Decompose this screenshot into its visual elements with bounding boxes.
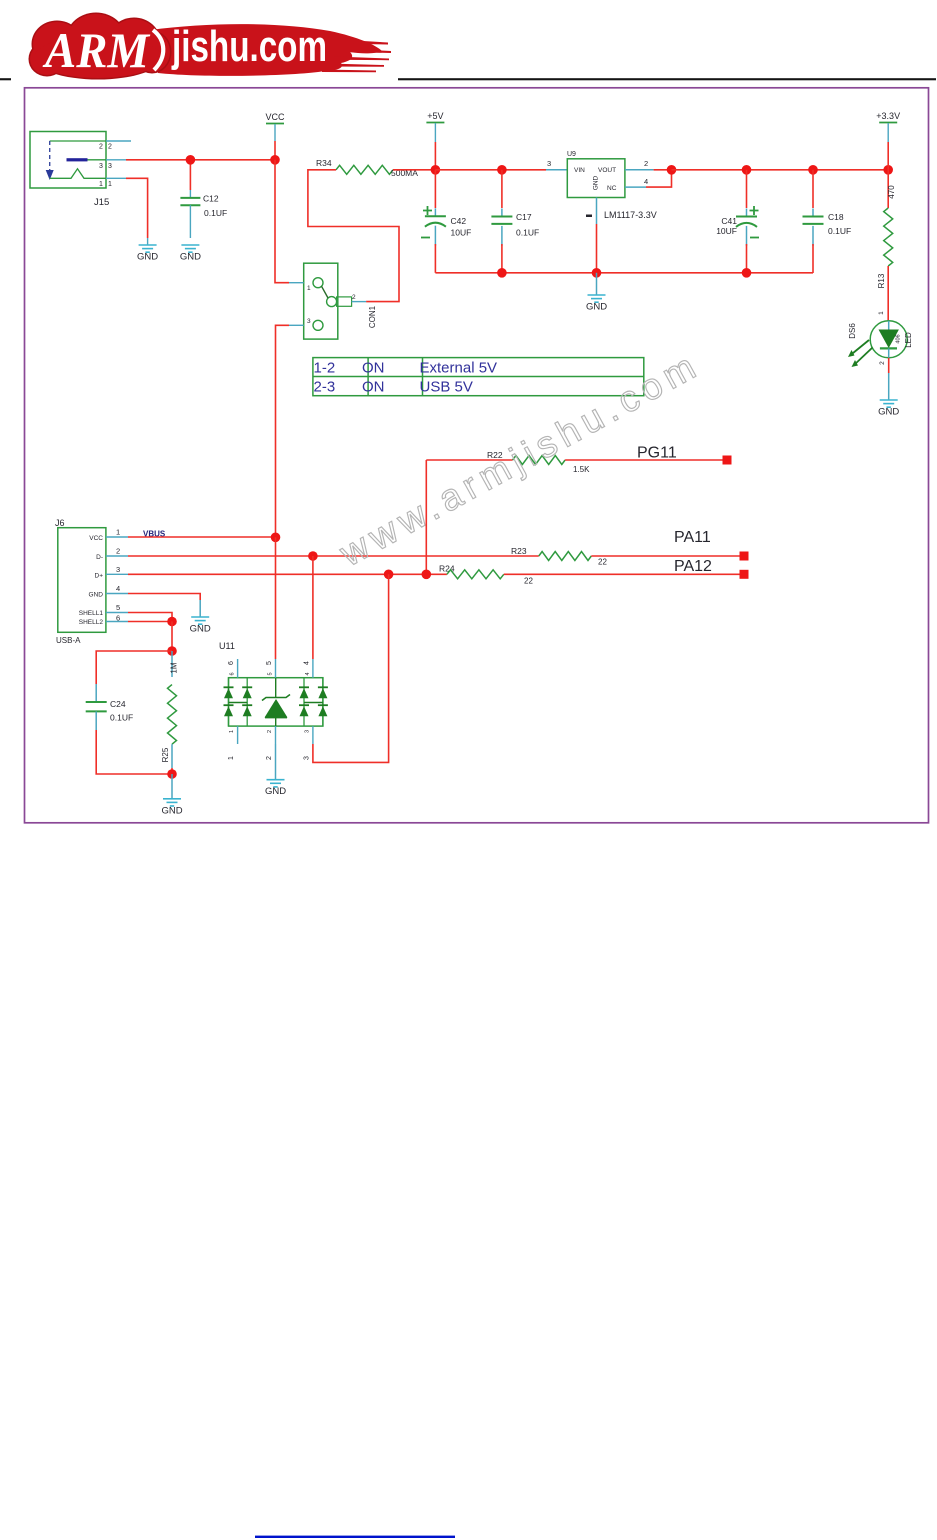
- junction C41: [742, 165, 752, 175]
- wire LED to ground: [888, 358, 890, 373]
- U11 pin2 to ground: [275, 744, 277, 780]
- svg-text:1.5K: 1.5K: [573, 465, 590, 474]
- capacitor C18 0.1UF: [803, 170, 852, 273]
- wire D- line: [128, 555, 539, 557]
- svg-text:VCC: VCC: [265, 112, 285, 122]
- svg-text:J15: J15: [94, 197, 109, 208]
- svg-text:GND: GND: [593, 175, 600, 190]
- svg-text:0.1UF: 0.1UF: [516, 228, 539, 238]
- svg-text:6: 6: [230, 672, 236, 675]
- wire R22 to PG11: [565, 459, 724, 461]
- svg-text:GND: GND: [265, 786, 286, 797]
- wire VBUS down to U11 pin5: [275, 537, 277, 659]
- capacitor C12: [180, 160, 227, 238]
- svg-text:470: 470: [887, 185, 896, 199]
- svg-text:VCC: VCC: [89, 535, 103, 542]
- capacitor C42 10UF: [421, 170, 471, 273]
- svg-text:5: 5: [266, 661, 273, 665]
- junction rail U9: [592, 268, 602, 278]
- wire VCC down to switch pin1: [275, 160, 289, 283]
- wire J15 pin1 down to ground: [126, 178, 148, 238]
- U9 gnd wire down: [596, 224, 598, 273]
- svg-text:22: 22: [598, 558, 607, 567]
- svg-text:C17: C17: [516, 212, 532, 222]
- IC U11 diode array: [224, 678, 328, 726]
- svg-text:GND: GND: [586, 302, 607, 313]
- terminal PA12: [740, 570, 749, 579]
- svg-text:USB-A: USB-A: [56, 636, 81, 645]
- schematic sheet border: [25, 88, 929, 823]
- resistor R25 1M: [161, 651, 179, 774]
- svg-text:D-: D-: [96, 554, 103, 561]
- svg-text:2: 2: [108, 143, 112, 150]
- svg-text:1: 1: [307, 285, 311, 292]
- wire D+ branch up to R22: [425, 460, 427, 574]
- junction C17 top: [497, 165, 507, 175]
- svg-text:1: 1: [116, 528, 120, 537]
- svg-text:0.1UF: 0.1UF: [110, 713, 133, 723]
- svg-text:1: 1: [99, 181, 103, 188]
- wire shell2: [128, 621, 172, 623]
- J15 pin 3 stub: [106, 159, 126, 161]
- svg-text:LED: LED: [904, 332, 913, 348]
- wire R34 right to +5V junction: [393, 169, 435, 171]
- U9 pin 3 stub: [546, 169, 567, 171]
- junction shell: [167, 617, 177, 627]
- svg-text:C41: C41: [721, 216, 737, 226]
- connector J6 USB-A: [55, 518, 106, 645]
- svg-text:PA12: PA12: [674, 558, 712, 575]
- svg-text:C12: C12: [203, 194, 219, 204]
- svg-text:GND: GND: [878, 407, 899, 418]
- junction C12/VCC: [186, 155, 196, 165]
- logo ARMjishu.com: [29, 13, 392, 80]
- capacitor C41 10UF: [716, 170, 759, 273]
- svg-text:GND: GND: [190, 624, 211, 635]
- svg-text:GND: GND: [137, 252, 158, 263]
- svg-text:1: 1: [878, 311, 885, 315]
- J15 pin 1 stub: [106, 177, 126, 179]
- wire shell down: [171, 622, 173, 652]
- capacitor C17 0.1UF: [491, 170, 539, 273]
- junction D+ branch R22: [422, 570, 432, 580]
- svg-text:GND: GND: [89, 591, 104, 598]
- svg-text:2: 2: [352, 294, 356, 301]
- bottom hyperlink underline: [255, 1536, 455, 1538]
- 3.3V rail: [672, 169, 889, 171]
- svg-text:6: 6: [228, 661, 235, 665]
- terminal PA11: [740, 552, 749, 561]
- J6 pin stubs: [106, 528, 128, 623]
- ground under C12: [181, 245, 199, 252]
- svg-text:3: 3: [305, 730, 311, 733]
- svg-text:3: 3: [307, 318, 311, 325]
- svg-text:2-3: 2-3: [314, 379, 336, 396]
- svg-text:DS6: DS6: [848, 323, 857, 339]
- svg-text:R25: R25: [161, 747, 170, 762]
- svg-text:GND: GND: [180, 252, 201, 263]
- junction VBUS: [271, 533, 281, 543]
- junction U9 out: [667, 165, 677, 175]
- svg-text:10UF: 10UF: [451, 228, 472, 238]
- svg-text:ARM: ARM: [42, 22, 150, 78]
- svg-text:2: 2: [879, 361, 886, 365]
- resistor R13: [877, 170, 896, 321]
- U11 top pin stubs: [228, 659, 313, 678]
- svg-text:3: 3: [116, 565, 120, 574]
- svg-text:USB 5V: USB 5V: [420, 379, 473, 396]
- svg-text:0.1UF: 0.1UF: [828, 226, 851, 236]
- svg-text:ON: ON: [362, 359, 385, 376]
- svg-text:J6: J6: [55, 518, 65, 528]
- ground under LED: [880, 400, 898, 407]
- svg-text:U11: U11: [219, 641, 235, 651]
- jumper option table: [313, 358, 644, 396]
- ground under U11: [267, 780, 285, 787]
- svg-text:GND: GND: [161, 805, 182, 816]
- svg-text:LM1117-3.3V: LM1117-3.3V: [604, 210, 657, 220]
- LED DS6: [848, 311, 913, 367]
- wire VBUS: [128, 536, 276, 538]
- svg-text:4: 4: [305, 672, 311, 675]
- J15 pin 2 stub: [106, 140, 131, 142]
- junction rail C41: [742, 268, 752, 278]
- svg-text:C42: C42: [451, 216, 467, 226]
- ground symbol under U9: [596, 273, 598, 295]
- junction C18: [808, 165, 818, 175]
- svg-text:SHELL1: SHELL1: [79, 610, 104, 617]
- svg-text:C18: C18: [828, 212, 844, 222]
- wire D+ line: [128, 573, 447, 575]
- wire switch pin3 down to VBUS: [276, 325, 290, 537]
- svg-text:R13: R13: [877, 273, 886, 288]
- svg-text:4: 4: [644, 177, 648, 186]
- svg-text:CON1: CON1: [368, 305, 377, 328]
- junction R25 bottom: [167, 769, 177, 779]
- svg-text:PG11: PG11: [637, 445, 677, 462]
- svg-text:3: 3: [99, 163, 103, 170]
- svg-text:2: 2: [99, 143, 103, 150]
- svg-text:2: 2: [644, 159, 648, 168]
- wire R24 to PA12: [504, 573, 741, 575]
- junction R25 top: [167, 646, 177, 656]
- wire R23 to PA11: [591, 555, 741, 557]
- ground under R25: [163, 799, 181, 806]
- terminal PG11: [723, 456, 732, 465]
- svg-text:VIN: VIN: [574, 167, 585, 174]
- svg-text:10UF: 10UF: [716, 226, 737, 236]
- wire +5V rail to U9 VIN: [435, 169, 546, 171]
- svg-text:PA11: PA11: [674, 529, 711, 546]
- svg-text:4: 4: [304, 661, 311, 665]
- U9 pin 2 stub: [625, 169, 654, 171]
- regulator U9 LM1117-3.3V: [567, 151, 625, 198]
- junction VCC: [270, 155, 280, 165]
- svg-text:1-2: 1-2: [314, 359, 336, 376]
- capacitor C24 0.1UF: [86, 651, 172, 774]
- U9 pin 4 wire: [625, 186, 646, 188]
- svg-text:+5V: +5V: [427, 111, 443, 121]
- svg-text:2: 2: [267, 730, 273, 733]
- svg-text:406: 406: [896, 334, 902, 343]
- svg-text:22: 22: [524, 577, 533, 586]
- svg-text:5: 5: [268, 672, 274, 675]
- wire shell1: [128, 613, 172, 622]
- svg-text:VOUT: VOUT: [598, 167, 616, 174]
- junction +3.3V: [883, 165, 893, 175]
- svg-text:6: 6: [116, 614, 120, 623]
- wire U9 VOUT to 3.3V rail: [654, 169, 672, 171]
- svg-text:R23: R23: [511, 546, 527, 556]
- svg-text:External 5V: External 5V: [420, 359, 498, 376]
- svg-text:1: 1: [228, 756, 235, 760]
- svg-text:3: 3: [108, 163, 112, 170]
- ground under J15: [147, 238, 149, 245]
- svg-text:R34: R34: [316, 158, 332, 168]
- svg-text:1: 1: [108, 181, 112, 188]
- wire J15 pin3 to VCC rail: [126, 159, 275, 161]
- svg-text:0.1UF: 0.1UF: [204, 208, 227, 218]
- U11 bottom pin stubs: [228, 726, 313, 760]
- junction +5V: [431, 165, 441, 175]
- svg-text:2: 2: [116, 547, 120, 556]
- junction rail C17: [497, 268, 507, 278]
- header rule right segment: [398, 78, 936, 80]
- svg-text:1M: 1M: [170, 662, 179, 673]
- junction D+ branch U11: [384, 570, 394, 580]
- wire R25 to ground: [171, 774, 173, 799]
- svg-text:+3.3V: +3.3V: [876, 111, 900, 121]
- svg-text:4: 4: [116, 584, 120, 593]
- svg-text:ON: ON: [362, 379, 385, 396]
- connector J15 power jack: [30, 132, 112, 189]
- U9 gnd pin stub: [596, 198, 598, 225]
- wire U11 pin3 loop to D+: [313, 574, 389, 762]
- svg-text:D+: D+: [95, 572, 104, 579]
- svg-text:5: 5: [116, 603, 120, 612]
- svg-text:SHELL2: SHELL2: [79, 619, 104, 626]
- ground rail under regulator: [435, 272, 813, 274]
- svg-text:jishu.com: jishu.com: [171, 22, 327, 71]
- ground under J6: [191, 617, 209, 624]
- svg-text:C24: C24: [110, 699, 126, 709]
- wire J6 GND pin: [128, 594, 200, 601]
- svg-text:3: 3: [304, 756, 311, 760]
- junction D-: [308, 551, 318, 561]
- switch CON1: [289, 263, 366, 339]
- svg-text:2: 2: [266, 756, 273, 760]
- svg-text:1: 1: [229, 730, 235, 733]
- wire D- down to U11 pin4: [312, 556, 314, 659]
- svg-text:NC: NC: [607, 185, 617, 192]
- header rule left segment: [0, 78, 11, 80]
- svg-text:U9: U9: [567, 151, 576, 158]
- svg-text:3: 3: [547, 159, 551, 168]
- wire R34 left to switch pin2: [308, 170, 399, 302]
